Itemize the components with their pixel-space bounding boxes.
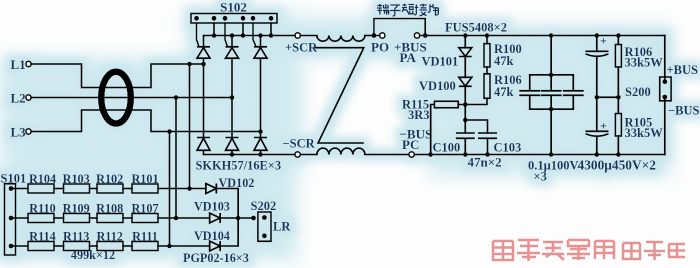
wire tap L2 to R107 row bbox=[175, 98, 177, 219]
node film cap top bbox=[549, 33, 554, 38]
node film rail top bbox=[549, 73, 554, 78]
svg-text:499k×12: 499k×12 bbox=[71, 248, 115, 262]
wire L1 phase bbox=[31, 64, 203, 88]
svg-text:S102: S102 bbox=[220, 0, 247, 15]
wire to choke L- bbox=[300, 154, 317, 156]
wire row2 start bbox=[11, 217, 28, 219]
resistor R112 bbox=[97, 242, 123, 251]
pin 1 S102 bbox=[194, 16, 199, 21]
node bus pin6 bbox=[269, 33, 274, 38]
svg-text:4300μ450V×2: 4300μ450V×2 bbox=[578, 158, 657, 173]
svg-text:S202: S202 bbox=[251, 199, 277, 213]
svg-text:S200: S200 bbox=[625, 85, 651, 99]
wire bbox=[123, 217, 132, 219]
connector S200 bbox=[660, 77, 671, 101]
watermark glyph 1 bbox=[493, 241, 513, 260]
inductor L- bbox=[317, 148, 365, 154]
svg-text:VD101: VD101 bbox=[422, 55, 459, 69]
diode VD1 bottom row bbox=[197, 138, 210, 155]
capacitor C100 bbox=[456, 133, 475, 155]
wire L2 phase bbox=[31, 97, 232, 99]
pin S101-1 bbox=[9, 186, 14, 191]
node bus pin2 bbox=[212, 33, 217, 38]
svg-text:VD100: VD100 bbox=[419, 79, 456, 93]
node elco bottom bbox=[595, 152, 600, 157]
svg-text:R102: R102 bbox=[96, 172, 123, 186]
node C103 bottom bbox=[485, 152, 490, 157]
diode VD100 bbox=[459, 77, 472, 86]
resistor R111 bbox=[132, 242, 158, 251]
wire +BUS rail bbox=[425, 35, 665, 37]
resistor R109 bbox=[64, 214, 90, 223]
node VD101 branch bbox=[463, 33, 468, 38]
wire S102 pin4 to bus bbox=[242, 23, 244, 36]
wire balance link bbox=[597, 96, 619, 98]
node L3 tap bbox=[167, 129, 172, 134]
wire row1 start bbox=[11, 188, 28, 190]
node R106b top bbox=[616, 33, 621, 38]
svg-text:R103: R103 bbox=[63, 172, 90, 186]
wire VD102 down bbox=[216, 189, 238, 219]
node V3 anode L3 bbox=[258, 129, 263, 134]
pin S200 bottom bbox=[662, 95, 667, 100]
terminal L3 bbox=[26, 129, 31, 134]
svg-text:PA: PA bbox=[400, 50, 417, 65]
resistor R103 bbox=[64, 184, 90, 193]
watermark glyph 2 bbox=[517, 240, 540, 261]
resistor R105 33k bbox=[615, 114, 621, 137]
wire V3 to diode VD3 bbox=[260, 132, 262, 138]
svg-text:3R3: 3R3 bbox=[408, 108, 430, 122]
resistor R107 bbox=[132, 214, 158, 223]
wire bbox=[54, 245, 64, 247]
pin S202 top bbox=[262, 215, 267, 220]
node balance mid bbox=[616, 95, 621, 100]
node row2 L2 tap bbox=[174, 216, 179, 221]
diode VD3 bottom row bbox=[254, 138, 267, 155]
svg-text:47k: 47k bbox=[494, 85, 514, 99]
terminal -SCR bbox=[295, 152, 300, 157]
wire row3 to VD104 bbox=[158, 245, 210, 247]
node bus pin4 bbox=[241, 33, 246, 38]
wire elco mid bbox=[596, 56, 598, 131]
resistor R104 bbox=[28, 184, 54, 193]
node L2 tap bbox=[174, 95, 179, 100]
capacitor C103 bbox=[478, 133, 497, 155]
svg-text:L3: L3 bbox=[11, 125, 27, 140]
interphase Z link bbox=[316, 48, 364, 143]
node R115 junction bbox=[463, 102, 468, 107]
capacitor film 1 bbox=[519, 75, 540, 109]
pin 6 S102 bbox=[269, 16, 274, 21]
svg-text:R113: R113 bbox=[63, 230, 89, 244]
label terminal shorting link (CJK) bbox=[377, 4, 438, 16]
svg-text:VD103: VD103 bbox=[194, 200, 230, 214]
node bus V3 bbox=[258, 33, 263, 38]
pin S101-3 bbox=[9, 244, 14, 249]
resistor R101 bbox=[132, 184, 158, 193]
node PO junction bbox=[372, 33, 377, 38]
terminal PA bbox=[414, 33, 419, 38]
connector S101 bbox=[5, 184, 16, 255]
diode VD102 bbox=[206, 184, 217, 194]
svg-text:L2: L2 bbox=[11, 91, 26, 106]
svg-text:PGP02-16×3: PGP02-16×3 bbox=[183, 251, 249, 265]
watermark glyph 3 bbox=[542, 242, 564, 260]
watermark glyph 5 bbox=[595, 241, 614, 259]
resistor R102 bbox=[97, 184, 123, 193]
wire bbox=[123, 245, 132, 247]
thyristor V3 bbox=[254, 36, 267, 132]
svg-text:−SCR: −SCR bbox=[283, 137, 316, 151]
node PA junction bbox=[423, 33, 428, 38]
resistor R110 bbox=[28, 214, 54, 223]
diode VD103 bbox=[210, 213, 221, 223]
wire L3 phase bbox=[31, 110, 260, 132]
svg-text:PO: PO bbox=[371, 40, 389, 55]
wire +SCR bus bbox=[204, 35, 295, 37]
inductor L+ bbox=[317, 36, 365, 42]
diode VD101 bbox=[459, 48, 472, 57]
svg-text:×3: ×3 bbox=[534, 170, 547, 184]
node VD2 anode bbox=[230, 152, 235, 157]
wire bbox=[90, 217, 98, 219]
diode VD2 bottom row bbox=[226, 138, 239, 155]
wire R105 bottom bbox=[617, 136, 619, 155]
pin 2 S102 bbox=[212, 16, 217, 21]
resistor R113 bbox=[64, 242, 90, 251]
wire right rail top bbox=[664, 36, 666, 82]
terminal PC bbox=[409, 152, 414, 157]
svg-text:+: + bbox=[600, 34, 607, 48]
resistor R108 bbox=[97, 214, 123, 223]
wire row1 to VD102 bbox=[158, 188, 206, 190]
resistor R100 bbox=[486, 36, 488, 44]
pin 5 S102 bbox=[251, 16, 256, 21]
wire VD101 to VD100 bbox=[464, 57, 466, 78]
connector S202 bbox=[258, 212, 271, 241]
connector S102 bbox=[191, 14, 277, 24]
wire bbox=[54, 188, 64, 190]
node L1 tap bbox=[187, 62, 192, 67]
node R100 branch bbox=[485, 33, 490, 38]
watermark glyph 8 bbox=[669, 244, 685, 258]
wire tap L1 to R101 row bbox=[189, 64, 191, 189]
diode VD104 bbox=[210, 241, 221, 251]
wire -BUS rail bbox=[414, 154, 664, 156]
wire R106 to node bbox=[465, 98, 487, 104]
wire V1 to diode VD1 bbox=[203, 64, 205, 138]
node V2 anode L2 bbox=[230, 95, 235, 100]
pin S200 top bbox=[662, 79, 667, 84]
pin S101-2 bbox=[9, 216, 14, 221]
terminal L1 bbox=[26, 61, 31, 66]
wire PA stub bbox=[420, 35, 425, 37]
node row3 L3 tap bbox=[167, 244, 172, 249]
svg-text:R111: R111 bbox=[132, 230, 158, 244]
wire R100 to R106 bbox=[486, 67, 488, 74]
svg-text:SKKH57/16E×3: SKKH57/16E×3 bbox=[196, 159, 282, 173]
svg-text:+: + bbox=[600, 119, 607, 133]
node C100 bottom bbox=[463, 152, 468, 157]
wire choke to PC bbox=[365, 154, 409, 156]
wire elco bottom bbox=[596, 136, 598, 154]
svg-text:C103: C103 bbox=[494, 141, 522, 155]
wire bbox=[123, 188, 132, 190]
wire V2 to diode VD2 bbox=[231, 98, 233, 138]
wire tap L3 to R111 row bbox=[169, 132, 171, 247]
wire VD103 to node bbox=[220, 217, 253, 219]
watermark glyph 6 bbox=[623, 243, 640, 259]
svg-text:+BUS: +BUS bbox=[667, 63, 698, 77]
svg-text:FUS5408×2: FUS5408×2 bbox=[445, 21, 507, 35]
resistor R114 bbox=[28, 242, 54, 251]
terminal PO bbox=[380, 33, 385, 38]
node R105 bottom bbox=[616, 152, 621, 157]
wire S102 pin2 to bus bbox=[213, 23, 215, 36]
node bus V2 bbox=[230, 33, 235, 38]
resistor R106 33k bbox=[617, 36, 619, 45]
node film rail bottom bbox=[549, 107, 554, 112]
wire VD100 to node bbox=[464, 86, 466, 120]
wire cap branch bbox=[465, 120, 487, 133]
wire to VD101 bbox=[464, 36, 466, 48]
node row1 L1 tap bbox=[187, 186, 192, 191]
node S202 stub bbox=[251, 216, 256, 221]
svg-text:33k5W: 33k5W bbox=[625, 56, 664, 70]
svg-text:R107: R107 bbox=[131, 202, 158, 216]
pin S202 bottom bbox=[262, 233, 267, 238]
svg-text:−BUS: −BUS bbox=[668, 104, 699, 118]
svg-text:R110: R110 bbox=[29, 202, 55, 216]
wire film cap to -BUS bbox=[550, 109, 552, 154]
wire row2 to VD103 bbox=[158, 217, 210, 219]
svg-text:R112: R112 bbox=[96, 230, 122, 244]
resistor R115 bbox=[434, 101, 458, 107]
node elco top bbox=[595, 33, 600, 38]
terminal L2 bbox=[26, 95, 31, 100]
thyristor V1 bbox=[197, 36, 210, 65]
capacitor film 2 bbox=[541, 75, 562, 109]
svg-text:R101: R101 bbox=[131, 172, 158, 186]
wire film cap drop bbox=[550, 36, 552, 75]
svg-text:R114: R114 bbox=[29, 230, 55, 244]
wire gate 2 bbox=[225, 23, 227, 46]
pin 3 S102 bbox=[223, 16, 228, 21]
svg-text:LR: LR bbox=[273, 220, 291, 234]
capacitor elco C+ top bbox=[596, 36, 598, 52]
terminal +SCR bbox=[295, 33, 300, 38]
node cap branch bbox=[463, 118, 468, 123]
thyristor V2 bbox=[226, 36, 239, 98]
shorting link bracket bbox=[374, 19, 425, 36]
node diode join bbox=[236, 216, 241, 221]
svg-text:47n×2: 47n×2 bbox=[468, 155, 502, 170]
wire bbox=[54, 217, 64, 219]
capacitor film 3 bbox=[563, 75, 584, 109]
wire bbox=[90, 245, 98, 247]
node V1 anode L1 bbox=[201, 62, 206, 67]
wire VD104 up bbox=[220, 218, 238, 246]
wire choke to PO bbox=[365, 35, 374, 37]
node R115 bottom bbox=[428, 152, 433, 157]
node VD3 anode bbox=[258, 152, 263, 157]
svg-text:VD104: VD104 bbox=[194, 229, 230, 243]
wire bbox=[90, 188, 98, 190]
pin 4 S102 bbox=[241, 16, 246, 21]
watermark glyph 7 bbox=[644, 242, 665, 260]
wire R106b to R105 bbox=[617, 67, 619, 114]
svg-text:PC: PC bbox=[402, 137, 419, 152]
watermark glyph 4 bbox=[567, 240, 590, 260]
wire to choke L+ bbox=[301, 35, 317, 37]
wire right rail bottom bbox=[664, 97, 666, 155]
wire PO stub bbox=[374, 35, 380, 37]
wire gate 3 bbox=[253, 23, 256, 46]
current transformer ring bbox=[101, 72, 131, 124]
wire film cap rails bbox=[530, 75, 574, 109]
resistor R106 bbox=[484, 74, 490, 99]
svg-text:R109: R109 bbox=[63, 202, 90, 216]
wire -SCR bus bbox=[204, 154, 295, 156]
wire row3 start bbox=[11, 245, 28, 247]
node film cap bottom bbox=[549, 152, 554, 157]
svg-text:33k5W: 33k5W bbox=[625, 126, 664, 140]
svg-text:L1: L1 bbox=[11, 57, 26, 72]
wire S102 pin6 to bus bbox=[270, 23, 272, 36]
svg-text:R104: R104 bbox=[29, 172, 56, 186]
svg-text:R108: R108 bbox=[96, 202, 123, 216]
svg-text:47k: 47k bbox=[494, 54, 514, 68]
wire gate 1 bbox=[197, 23, 199, 46]
node elco midpoint bbox=[595, 95, 600, 100]
svg-text:+SCR: +SCR bbox=[285, 41, 318, 55]
capacitor elco C- bottom bbox=[586, 130, 609, 132]
svg-text:C100: C100 bbox=[433, 141, 461, 155]
